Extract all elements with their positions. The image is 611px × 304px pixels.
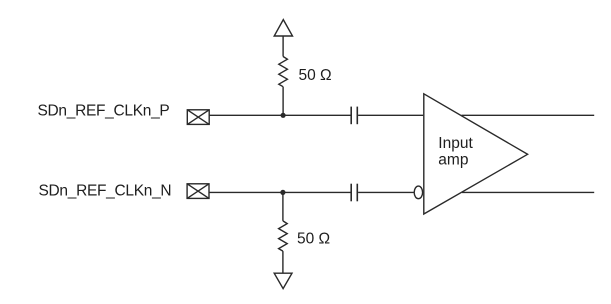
power supply symbol (up triangle) bbox=[274, 20, 292, 36]
inversion bubble on amp N input bbox=[414, 186, 422, 199]
capacitor (N line, AC coupling) bbox=[351, 184, 357, 202]
wire: pull-up resistor to P line bbox=[282, 87, 284, 116]
wire: pull-down resistor to ground bbox=[282, 251, 284, 273]
op-amp U1 (input amp triangle) bbox=[424, 94, 528, 214]
label Input amp bbox=[438, 135, 473, 168]
wire: capacitor to amp inverting input bbox=[358, 191, 414, 193]
wire: amp output N (bottom) bbox=[462, 191, 594, 193]
wire: amp output P (top) bbox=[462, 114, 595, 116]
junction on N line bbox=[280, 190, 285, 195]
junction on P line bbox=[281, 113, 286, 118]
wire: P pad to coupling capacitor bbox=[209, 114, 350, 116]
svg-text:50 Ω: 50 Ω bbox=[299, 67, 332, 84]
wire: N line to pull-down resistor bbox=[282, 192, 284, 221]
resistor 50 ohm (pull-up) bbox=[279, 57, 288, 87]
wire: supply to pull-up resistor bbox=[282, 36, 284, 57]
svg-text:Input: Input bbox=[438, 135, 473, 152]
ground symbol (down triangle) bbox=[274, 273, 292, 288]
svg-text:SDn_REF_CLKn_P: SDn_REF_CLKn_P bbox=[38, 102, 170, 119]
svg-text:amp: amp bbox=[438, 151, 468, 168]
pad SDn_REF_CLKn_N (box with X) bbox=[187, 184, 209, 199]
resistor 50 ohm (pull-down) bbox=[279, 221, 288, 251]
svg-text:SDn_REF_CLKn_N: SDn_REF_CLKn_N bbox=[39, 183, 172, 200]
wire: N pad to coupling capacitor bbox=[209, 191, 351, 193]
wire: capacitor to amp input P bbox=[358, 114, 423, 116]
svg-text:50 Ω: 50 Ω bbox=[297, 230, 330, 247]
capacitor (P line, AC coupling) bbox=[351, 107, 357, 125]
pad SDn_REF_CLKn_P (box with X) bbox=[187, 110, 209, 125]
